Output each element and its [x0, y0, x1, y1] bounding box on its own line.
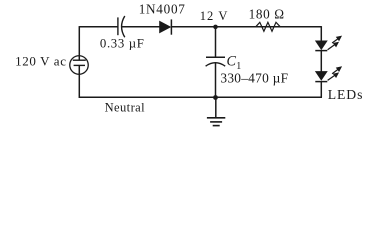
svg-text:Neutral: Neutral	[105, 100, 146, 114]
wire ground stem	[215, 98, 217, 118]
resistor R1 180 ohm	[256, 22, 281, 31]
LED D2	[315, 41, 327, 51]
wire LED2 to bottom corner	[320, 82, 322, 98]
svg-text:12 V: 12 V	[200, 9, 229, 23]
svg-text:1N4007: 1N4007	[139, 1, 186, 16]
wire between LED1 and LED2	[320, 51, 322, 72]
node bottom junction dot	[213, 95, 218, 100]
wire right rail down to LED1	[320, 26, 322, 41]
wire bottom (Neutral)	[79, 96, 322, 98]
wire left rail upper	[78, 26, 80, 60]
wire cap to diode	[122, 26, 160, 28]
source V1 120 V ac	[70, 56, 89, 75]
LED D3	[315, 72, 327, 82]
wire node to C1	[215, 27, 217, 57]
svg-text:180 Ω: 180 Ω	[249, 6, 285, 21]
capacitor C1	[206, 57, 226, 66]
svg-text:C: C	[227, 53, 237, 69]
wire diode to right corner	[171, 26, 321, 28]
capacitor 0.33 uF	[118, 16, 125, 37]
diode D1 1N4007	[160, 19, 172, 34]
wire top-left horizontal	[79, 26, 118, 28]
svg-text:LEDs: LEDs	[328, 87, 364, 102]
wire left rail lower	[78, 65, 80, 98]
wire C1 to bottom junction	[215, 63, 217, 98]
svg-text:0.33 µF: 0.33 µF	[100, 36, 145, 50]
svg-text:330–470 µF: 330–470 µF	[220, 71, 288, 86]
LED D3 light arrows	[328, 67, 342, 81]
node 12V junction dot	[213, 25, 218, 30]
svg-text:120 V ac: 120 V ac	[15, 54, 67, 69]
LED D2 light arrows	[328, 36, 342, 50]
ground	[207, 118, 225, 126]
